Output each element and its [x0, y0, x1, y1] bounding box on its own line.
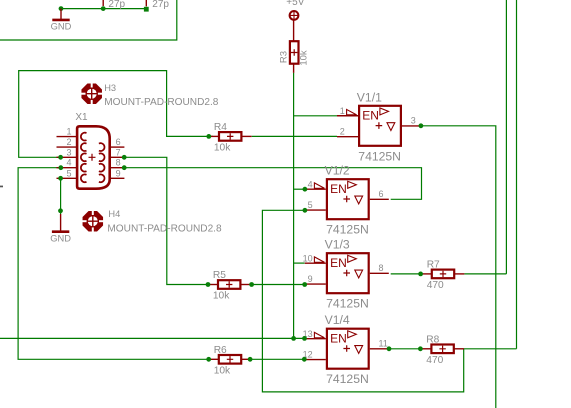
connector X1 (DB9): [75, 112, 109, 189]
junction X1 pin8: [122, 165, 127, 170]
svg-text:MOUNT-PAD-ROUND2.8: MOUNT-PAD-ROUND2.8: [104, 97, 219, 108]
svg-text:74125N: 74125N: [358, 149, 401, 163]
resistor R3 10k (vertical): [279, 20, 310, 73]
svg-text:10k: 10k: [213, 291, 230, 302]
svg-text:2: 2: [66, 137, 71, 147]
junction R4 left: [206, 134, 211, 139]
resistor R8: [421, 334, 464, 366]
svg-text:9: 9: [116, 168, 121, 178]
wire V1/4 pin11 to R8 and up: [389, 348, 421, 350]
svg-text:GND: GND: [50, 234, 71, 244]
supply +5V: [286, 0, 304, 20]
junction V1/2 pin4: [303, 187, 308, 192]
svg-text:MOUNT-PAD-ROUND2.8: MOUNT-PAD-ROUND2.8: [107, 223, 222, 234]
svg-text:10k: 10k: [298, 50, 309, 66]
svg-text:10k: 10k: [214, 366, 231, 377]
wire to V1/1 pin1: [294, 115, 337, 117]
mount pad H3: [81, 83, 219, 108]
junction V1/3 pin9: [302, 282, 307, 287]
capacitor lead C? (27p #2): [145, 0, 147, 6]
resistor R7: [422, 260, 465, 292]
svg-text:10: 10: [303, 254, 313, 264]
left edge mark: [0, 186, 3, 188]
svg-text:5: 5: [308, 200, 313, 210]
svg-text:H4: H4: [108, 209, 120, 219]
svg-text:V1/2: V1/2: [325, 164, 350, 178]
svg-text:H3: H3: [104, 83, 116, 93]
X1 pin 3: [57, 147, 87, 161]
svg-text:27p: 27p: [152, 0, 169, 10]
buffer gate V1/3 (74125N): [303, 238, 389, 311]
junction R7 left: [418, 272, 423, 277]
ground GND (top): [51, 9, 72, 32]
junction V1/4 pin13: [302, 336, 307, 341]
junction X1 pin3: [58, 155, 63, 160]
svg-text:4: 4: [66, 158, 71, 168]
svg-text:R6: R6: [214, 345, 227, 356]
junction R5 right: [249, 282, 254, 287]
wire X1 pin8 to V1/2 pin6: [124, 168, 421, 200]
wire to V1/3 pin10: [294, 262, 305, 264]
junction V1/2 pin5: [303, 208, 308, 213]
svg-text:2: 2: [340, 127, 345, 137]
svg-text:5: 5: [66, 168, 71, 178]
wire V1/2 pin5 to R8 row loop: [262, 210, 463, 392]
svg-text:X1: X1: [75, 112, 88, 123]
svg-text:EN: EN: [362, 109, 379, 123]
X1 pin 9: [99, 168, 125, 182]
X1 pin 5: [57, 168, 87, 182]
svg-text:V1/1: V1/1: [357, 90, 382, 104]
wire net column A: [505, 0, 507, 274]
svg-text:+5V: +5V: [286, 0, 304, 8]
mount pad H4: [82, 209, 222, 235]
svg-text:R7: R7: [427, 260, 440, 271]
svg-text:EN: EN: [330, 332, 347, 346]
svg-text:8: 8: [116, 158, 121, 168]
svg-text:GND: GND: [51, 22, 72, 32]
junction V1/1 pin3: [419, 123, 424, 128]
buffer gate V1/4 (74125N): [303, 313, 389, 386]
svg-text:10k: 10k: [214, 143, 231, 154]
svg-text:R3: R3: [279, 51, 290, 63]
svg-text:R8: R8: [426, 334, 439, 345]
wire X1 pin3 to R4 to V1/1 pin2: [19, 71, 213, 158]
svg-text:4: 4: [308, 180, 313, 190]
svg-text:470: 470: [427, 280, 444, 291]
resistor R4: [209, 122, 252, 154]
X1 pin 2: [57, 137, 87, 151]
svg-text:74125N: 74125N: [326, 372, 369, 386]
svg-text:EN: EN: [330, 182, 347, 196]
svg-text:3: 3: [66, 147, 71, 157]
wire top-left frame: [0, 0, 177, 40]
wire X1 pin4 down-left loop: [18, 168, 208, 360]
wire net column B: [516, 0, 518, 349]
junction V1/4 pin13 net: [291, 336, 296, 341]
svg-text:74125N: 74125N: [326, 223, 369, 237]
junction V1/4 pin11: [387, 346, 392, 351]
wire V1/3 pin8 to R7 and up: [391, 273, 422, 275]
svg-text:EN: EN: [330, 256, 347, 270]
svg-text:1: 1: [66, 127, 71, 137]
junction R5 left: [206, 282, 211, 287]
svg-text:8: 8: [379, 263, 384, 273]
svg-text:9: 9: [308, 274, 313, 284]
svg-text:470: 470: [426, 355, 443, 366]
svg-text:V1/4: V1/4: [325, 313, 350, 327]
svg-text:R5: R5: [213, 270, 226, 281]
wire X1 pin5 to GND: [60, 178, 62, 214]
svg-text:R4: R4: [214, 122, 227, 133]
svg-text:1: 1: [340, 106, 345, 116]
svg-text:6: 6: [116, 137, 121, 147]
junction V1/4 pin12: [302, 357, 307, 362]
wire to V1/2 pin4: [294, 188, 305, 190]
svg-text:11: 11: [379, 339, 388, 349]
junction R8 left: [418, 346, 423, 351]
junction: [101, 6, 106, 11]
resistor R5: [208, 270, 251, 302]
svg-text:74125N: 74125N: [326, 297, 369, 311]
X1 pin 7: [99, 147, 125, 161]
buffer gate V1/1 (74125N): [337, 90, 421, 163]
junction X1 pin7: [122, 155, 127, 160]
X1 pin 6: [99, 137, 125, 151]
wire to V1/4 pin13 and left edge: [0, 337, 305, 339]
junction: [59, 6, 64, 11]
wire top net (crystal caps): [61, 8, 146, 10]
wire V1/1 pin3 output down: [421, 126, 496, 408]
svg-text:3: 3: [411, 116, 416, 126]
capacitor lead C? (27p #1): [102, 0, 104, 6]
junction (square): [144, 7, 149, 12]
resistor R6: [209, 345, 252, 377]
wire EN net from R3: [293, 73, 295, 339]
X1 pin 1: [57, 127, 87, 141]
svg-text:7: 7: [116, 147, 121, 157]
wire X1 pin7 to R5: [124, 157, 208, 284]
ground GND (X1): [50, 214, 71, 244]
junction X1 pin4: [58, 165, 63, 170]
svg-text:V1/3: V1/3: [325, 238, 350, 252]
svg-text:6: 6: [379, 189, 384, 199]
buffer gate V1/2 (74125N): [305, 164, 389, 237]
X1 pin 8: [99, 158, 125, 172]
X1 pin 4: [57, 158, 87, 172]
svg-text:27p: 27p: [108, 0, 125, 10]
junction R6 right: [248, 357, 253, 362]
junction X1 pin5: [58, 176, 63, 181]
junction: [58, 208, 63, 213]
junction R6 left: [206, 357, 211, 362]
